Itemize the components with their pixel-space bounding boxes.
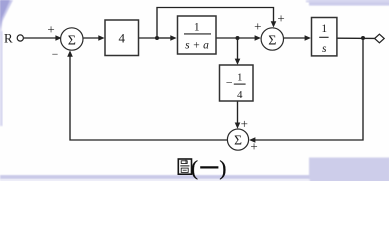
summing junction sum1 xyxy=(61,28,83,50)
svg-text:Σ: Σ xyxy=(234,133,242,148)
input node R terminal xyxy=(17,35,23,41)
arrow into sum1 bottom xyxy=(67,50,73,56)
arrow into block H xyxy=(235,59,241,65)
arrow into block G1 xyxy=(170,35,176,41)
scan artifact: top-left wedge xyxy=(0,0,13,38)
arrow into sum3 top xyxy=(235,123,241,129)
svg-text:+: + xyxy=(47,22,54,37)
block G1 1/(s+a) xyxy=(178,16,217,54)
svg-text:1: 1 xyxy=(194,21,200,33)
wire feedforward riser xyxy=(157,8,274,39)
svg-text:4: 4 xyxy=(119,31,126,46)
svg-text:+: + xyxy=(250,139,257,154)
svg-text:): ) xyxy=(219,156,226,180)
block 4 xyxy=(105,20,139,56)
wire sum3 output to left column xyxy=(70,56,227,140)
svg-text:−: − xyxy=(226,76,233,90)
caption glyph 圖 xyxy=(178,159,191,174)
block G2 1/s xyxy=(312,18,337,56)
node B junction dot xyxy=(236,36,240,40)
svg-text:+: + xyxy=(254,18,261,33)
wire R input to sum1 xyxy=(24,37,56,39)
wire sum2 to block G2 xyxy=(284,37,306,39)
svg-text:R: R xyxy=(4,30,13,45)
summing junction sum2 xyxy=(261,28,283,50)
svg-text:4: 4 xyxy=(237,89,243,101)
svg-text:+: + xyxy=(277,10,284,25)
output node diamond xyxy=(375,34,385,43)
arrow into sum2 top xyxy=(271,21,277,27)
svg-text:(: ( xyxy=(191,156,198,180)
svg-text:−: − xyxy=(52,49,59,61)
summing junction sum3 xyxy=(227,129,248,150)
arrow into block G2 xyxy=(305,35,311,41)
wire block H to sum3 xyxy=(237,101,239,124)
wire node B drop to block H xyxy=(237,38,239,60)
svg-text:1: 1 xyxy=(321,23,327,35)
wire block 4 to node A xyxy=(139,37,158,39)
wire block G2 to node C and output xyxy=(337,37,375,39)
wire sum1 to block 4 xyxy=(83,37,99,39)
node C junction dot xyxy=(361,36,365,40)
svg-text:s: s xyxy=(322,43,327,55)
arrow into block 4 xyxy=(98,35,104,41)
svg-text:Σ: Σ xyxy=(68,33,76,48)
wire block G1 to node B xyxy=(216,37,238,39)
wire right feedback drop xyxy=(255,38,363,140)
svg-text:+: + xyxy=(241,116,248,131)
scan artifact: left edge strip xyxy=(0,31,3,126)
block H -1/4 xyxy=(220,65,254,101)
arrow into sum1 xyxy=(55,35,61,41)
arrow into sum3 right xyxy=(249,137,255,143)
wire node B to sum2 xyxy=(238,37,257,39)
node A junction dot xyxy=(155,36,159,40)
caption dash 一 xyxy=(200,166,218,168)
svg-text:1: 1 xyxy=(237,71,243,83)
scan artifact: top-right lavender strip xyxy=(309,0,389,6)
svg-text:s + a: s + a xyxy=(185,40,209,52)
wire node A to block G1 xyxy=(157,37,172,39)
scan artifact: bottom-right lavender block xyxy=(309,158,389,183)
svg-text:Σ: Σ xyxy=(268,33,276,48)
scan artifact: bottom lavender band xyxy=(0,175,310,179)
arrow into sum2 left xyxy=(255,35,261,41)
